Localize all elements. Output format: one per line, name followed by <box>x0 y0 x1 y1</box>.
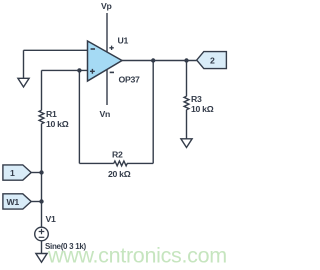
svg-text:20 kΩ: 20 kΩ <box>108 169 131 179</box>
wire Vp to U1 top <box>106 13 108 52</box>
svg-text:Vn: Vn <box>100 109 111 119</box>
svg-text:Vp: Vp <box>101 1 112 11</box>
ground (inverting input) <box>18 78 29 87</box>
wire op-amp output <box>122 60 197 62</box>
wire left rail upper (to R1) <box>41 70 43 110</box>
wire V1 to ground <box>41 241 43 254</box>
svg-text:10 kΩ: 10 kΩ <box>191 104 214 114</box>
wire R3 branch upper <box>186 61 188 97</box>
junction dot feedback/output <box>151 58 155 62</box>
wire left rail lower (R1 to V1) <box>41 124 43 228</box>
wire tag W1 to rail <box>31 201 41 203</box>
op-amp non-inverting input plus sign <box>90 69 95 74</box>
wire R3 branch lower <box>186 110 188 139</box>
svg-text:R1: R1 <box>46 109 57 119</box>
wire non-inverting input <box>42 69 88 71</box>
tag node 2 <box>197 52 227 69</box>
svg-text:2: 2 <box>210 56 215 66</box>
op-amp V+ power plus sign <box>109 46 113 50</box>
svg-text:R3: R3 <box>191 94 202 104</box>
wire Vn from U1 bottom <box>106 69 108 105</box>
op-amp inverting input minus sign <box>91 48 95 50</box>
svg-text:R2: R2 <box>112 150 123 160</box>
resistor R2 zigzag <box>114 161 127 166</box>
tag node 1 <box>3 165 31 180</box>
wire tag 1 to rail <box>31 172 41 174</box>
tag node W1 <box>3 194 31 209</box>
wire inverting input from ground <box>24 50 88 78</box>
junction dot tag1/rail <box>39 170 43 174</box>
svg-text:10 kΩ: 10 kΩ <box>46 119 69 129</box>
junction dot tagW1/rail <box>39 199 43 203</box>
wire feedback right leg <box>152 61 154 164</box>
junction dot R3/output <box>184 58 188 62</box>
svg-text:OP37: OP37 <box>119 75 140 85</box>
junction dot feedback/+input <box>77 68 81 72</box>
ground (below V1) <box>36 254 47 263</box>
svg-text:U1: U1 <box>118 36 129 46</box>
svg-text:Sine(0 3 1k): Sine(0 3 1k) <box>45 242 87 251</box>
resistor R3 zigzag <box>184 96 189 109</box>
resistor R1 zigzag <box>39 110 44 123</box>
wire R2 horizontal segments <box>79 162 153 164</box>
V1 plus sign <box>39 229 45 238</box>
V1 minus sign <box>39 236 45 238</box>
op-amp U1 triangle <box>88 41 123 81</box>
voltage source V1 circle <box>35 227 49 241</box>
ground (below R3) <box>181 139 192 148</box>
svg-text:W1: W1 <box>7 197 20 207</box>
svg-text:1: 1 <box>10 168 15 178</box>
svg-text:V1: V1 <box>46 214 56 224</box>
wire feedback left leg <box>78 70 80 163</box>
op-amp V- power minus sign <box>110 71 114 73</box>
